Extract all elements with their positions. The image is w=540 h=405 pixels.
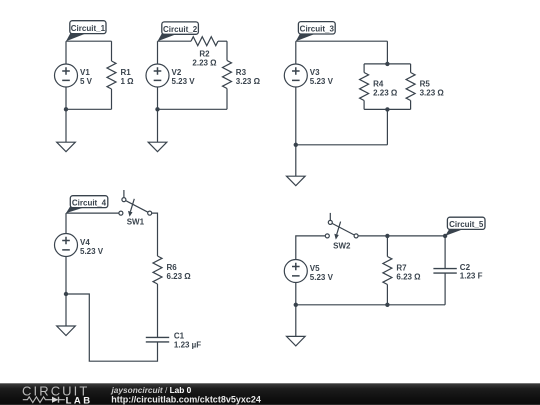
svg-text:Circuit_5: Circuit_5 <box>449 220 484 229</box>
wire V5 bottom lead <box>295 283 297 305</box>
wire V1 bottom lead <box>65 87 67 109</box>
resistor R3 <box>223 41 232 109</box>
voltage source V1 <box>55 64 78 87</box>
svg-text:1 Ω: 1 Ω <box>121 77 135 86</box>
wire C1 bottom return path <box>66 294 158 361</box>
wire circuit 2 node to R2 <box>158 40 192 42</box>
wire top rail circuit 3 <box>296 40 388 42</box>
svg-text:5.23 V: 5.23 V <box>310 273 334 282</box>
svg-text:5.23 V: 5.23 V <box>310 77 334 86</box>
wire bottom rail circuit 3 <box>296 144 388 146</box>
wire V3 top lead <box>295 41 297 64</box>
wire switch to C2 node <box>358 235 445 237</box>
resistor R1 <box>107 41 116 109</box>
svg-text:3.23 Ω: 3.23 Ω <box>236 77 261 86</box>
ground circuit 4 <box>57 294 76 336</box>
voltage source V2 <box>146 64 169 87</box>
wire top rail circuit 1 <box>66 40 112 42</box>
svg-text:5.23 V: 5.23 V <box>172 77 196 86</box>
svg-text:Circuit_2: Circuit_2 <box>163 25 198 34</box>
junction circuit 1 <box>64 107 68 111</box>
wire C2 top lead <box>444 236 446 269</box>
resistor R2 <box>191 37 218 46</box>
junction circuit 3 <box>294 143 298 147</box>
junction parallel bottom <box>385 107 389 111</box>
wire V5 top to switch <box>296 236 326 260</box>
svg-text:6.23 Ω: 6.23 Ω <box>396 272 421 281</box>
node label flag Circuit_2 <box>158 22 199 41</box>
svg-text:SW2: SW2 <box>333 242 351 251</box>
wire V3 bottom lead <box>295 87 297 145</box>
junction R7 bottom <box>385 303 389 307</box>
wire bottom rail circuit 5 <box>296 304 445 306</box>
voltage source V4 <box>55 234 78 257</box>
junction circuit 5 left <box>294 303 298 307</box>
voltage source V3 <box>284 64 307 87</box>
resistor R7 <box>383 236 392 305</box>
capacitor C2 <box>433 269 456 274</box>
voltage source V5 <box>284 260 307 283</box>
resistor R4 <box>360 64 369 110</box>
wire bottom rail circuit 2 <box>158 108 228 110</box>
capacitor C1 <box>146 337 169 342</box>
svg-text:R2: R2 <box>199 50 210 59</box>
svg-text:LAB: LAB <box>66 395 93 405</box>
wire parallel bottom bar <box>364 108 411 110</box>
wire V4 bottom lead <box>65 257 67 295</box>
node label flag Circuit_5 <box>445 217 485 236</box>
ground circuit 2 <box>148 109 167 151</box>
node label flag Circuit_4 <box>66 196 108 213</box>
svg-text:2.23 Ω: 2.23 Ω <box>373 88 398 97</box>
ground circuit 5 <box>287 305 306 346</box>
resistor R6 <box>153 256 162 284</box>
wire V2 bottom lead <box>157 87 159 109</box>
wire R6 to C1 <box>157 284 159 337</box>
svg-text:2.23 Ω: 2.23 Ω <box>192 59 217 68</box>
logo resistor squiggle and diode <box>23 397 65 403</box>
svg-text:1.23 F: 1.23 F <box>460 272 483 281</box>
wire switch to corner <box>152 213 158 256</box>
svg-text:6.23 Ω: 6.23 Ω <box>167 272 192 281</box>
ground circuit 1 <box>57 109 76 151</box>
node label flag Circuit_1 <box>66 21 106 42</box>
wire bottom rail circuit 1 <box>66 108 112 110</box>
wire down to parallel block <box>386 41 388 64</box>
switch SW2 <box>325 213 358 240</box>
svg-text:http://circuitlab.com/cktct8v5: http://circuitlab.com/cktct8v5yxc24 <box>111 394 261 404</box>
wire V1 top lead <box>65 41 67 64</box>
svg-text:3.23 Ω: 3.23 Ω <box>420 88 445 97</box>
junction R7 top <box>385 234 389 238</box>
wire parallel top bar <box>364 63 411 65</box>
wire C2 bottom lead <box>444 273 446 305</box>
junction C2 top <box>443 234 447 238</box>
wire V4 top lead <box>65 213 67 233</box>
svg-text:5.23 V: 5.23 V <box>80 247 104 256</box>
svg-text:Circuit_1: Circuit_1 <box>71 24 106 33</box>
junction parallel top <box>385 62 389 66</box>
svg-text:1.23 µF: 1.23 µF <box>174 340 201 349</box>
resistor R5 <box>406 64 415 110</box>
switch SW1 <box>119 190 152 217</box>
junction circuit 2 <box>155 107 159 111</box>
svg-text:SW1: SW1 <box>127 217 145 226</box>
wire down from parallel block <box>386 109 388 144</box>
ground circuit 3 <box>287 145 306 186</box>
svg-text:Circuit_3: Circuit_3 <box>300 25 335 34</box>
wire R2 to corner <box>218 40 227 42</box>
wire circuit 4 node to switch <box>66 212 119 214</box>
node label flag Circuit_3 <box>296 22 335 42</box>
junction circuit 4 <box>64 292 68 296</box>
svg-text:Circuit_4: Circuit_4 <box>72 198 107 207</box>
wire V2 top lead <box>157 41 159 64</box>
svg-text:5 V: 5 V <box>80 77 93 86</box>
